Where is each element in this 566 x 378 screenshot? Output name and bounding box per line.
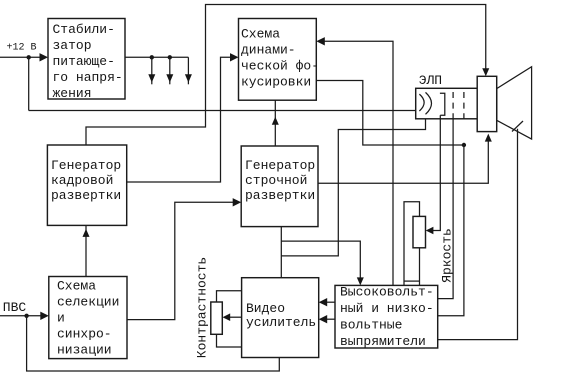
node dot focus electrode junction — [462, 143, 466, 147]
CRT dashed focus electrode — [463, 92, 465, 119]
block video amplifier (Видео усилитель) — [242, 278, 319, 358]
svg-text:усилитель: усилитель — [246, 315, 316, 330]
wire rectifier HV output to anode — [438, 129, 518, 340]
supply drop arrow 3 — [185, 57, 192, 84]
wire trunk branch to CRT cathode — [281, 114, 425, 256]
node junction on +12V line — [27, 55, 31, 59]
svg-text:выпрямители: выпрямители — [340, 334, 426, 349]
svg-text:Схема: Схема — [57, 279, 96, 294]
svg-text:развертки: развертки — [51, 188, 121, 203]
arrowhead into yoke top — [482, 68, 489, 76]
arrowhead into focus block left — [230, 53, 239, 61]
CRT neck envelope — [416, 88, 497, 119]
CRT cathode outer arc — [426, 92, 432, 114]
block stabilizer (Стабилизатор питающего напряжения) — [48, 19, 125, 102]
brightness pot bottom terminal to rectifier — [419, 248, 421, 286]
wire line generator to yoke bottom — [318, 142, 488, 184]
deflection yoke — [477, 76, 497, 131]
brightness pot body — [413, 216, 426, 247]
contrast pot bottom terminal to video amp — [217, 334, 242, 347]
svg-text:ческой фо-: ческой фо- — [241, 59, 319, 74]
svg-text:Схема: Схема — [241, 27, 280, 42]
wire focus block output to CRT focus electrode — [316, 81, 464, 146]
supply drop arrow 1 — [148, 57, 155, 84]
arrowhead into line generator left — [233, 198, 242, 206]
svg-text:низации: низации — [57, 343, 112, 358]
svg-text:строчной: строчной — [245, 173, 307, 188]
node dot 1 on distribution line — [150, 55, 154, 59]
wire G2 electrode to rectifier output 1 — [438, 119, 453, 299]
wire stabilizer output distribution — [125, 56, 188, 58]
svg-text:Стабили-: Стабили- — [53, 22, 115, 37]
svg-text:селекции: селекции — [57, 295, 119, 310]
CRT funnel and screen — [497, 67, 532, 139]
arrowhead wiper into contrast pot — [223, 313, 231, 321]
contrast pot wiper stub from video amp — [230, 316, 242, 318]
supply drop arrow 2 — [166, 57, 173, 84]
wire line generator top to focus block bottom — [274, 100, 276, 146]
svg-text:вольтные: вольтные — [340, 318, 402, 333]
svg-text:Яркость: Яркость — [440, 228, 455, 283]
block frame scan generator (Генератор кадровой развертки) — [47, 145, 126, 225]
CRT dashed electrode G2 — [452, 92, 454, 119]
wire sync selector to line generator — [127, 202, 233, 319]
wire sync selector up to frame generator — [85, 225, 87, 276]
arrowhead into stabilizer left — [40, 53, 49, 61]
wire rectifier to video amp supply 2 — [327, 318, 335, 320]
svg-text:ЭЛП: ЭЛП — [419, 73, 442, 88]
wire rectifier to focus block right (with arrow) — [324, 41, 393, 285]
brightness pot loop bottom tie — [404, 280, 420, 282]
contrast pot top terminal to video amp — [217, 291, 242, 302]
svg-text:ПВС: ПВС — [3, 300, 27, 315]
svg-text:жения: жения — [53, 86, 92, 101]
svg-text:кадровой: кадровой — [51, 173, 113, 188]
wire PVS input — [0, 315, 41, 317]
svg-text:+12 В: +12 В — [7, 43, 37, 54]
wire rectifier to video amp supply 1 — [327, 301, 335, 303]
block HV and LV rectifiers (Высоковольтный и низковольтные выпрямители) — [335, 285, 438, 350]
svg-text:синхро-: синхро- — [57, 327, 112, 342]
svg-text:кусировки: кусировки — [241, 75, 311, 90]
contrast pot body — [211, 302, 223, 334]
arrowhead up into frame generator bottom — [83, 229, 90, 237]
wire trunk branch to rectifier top — [281, 241, 360, 278]
wire PVS to video amplifier bottom — [27, 316, 280, 371]
wire from +12V node down to heater line — [28, 57, 30, 110]
node dot 2 on distribution line — [168, 55, 172, 59]
node junction on PVS line — [24, 314, 28, 318]
arrowhead up into yoke bottom — [485, 134, 492, 142]
arrowhead wiper into brightness pot — [426, 227, 434, 235]
svg-text:Видео: Видео — [246, 301, 285, 316]
svg-text:ный и низко-: ный и низко- — [340, 301, 434, 316]
block line scan generator (Генератор строчной развертки) — [241, 146, 318, 227]
wire frame generator top to deflection yoke (top run) — [86, 5, 486, 146]
svg-text:го напря-: го напря- — [53, 70, 123, 85]
wire focus electrode down to rectifier output 2 — [438, 145, 464, 316]
wire line generator bottom trunk to video amp top — [280, 227, 282, 278]
svg-text:Генератор: Генератор — [245, 158, 315, 173]
brightness pot top terminal loop — [404, 202, 420, 286]
svg-text:питающе-: питающе- — [53, 54, 115, 69]
arrowhead into video amp right 1 — [319, 298, 328, 306]
svg-text:динами-: динами- — [241, 43, 296, 58]
svg-text:Генератор: Генератор — [51, 158, 121, 173]
svg-text:и: и — [57, 311, 65, 326]
wire heater/cathode supply line across to CRT — [29, 110, 421, 112]
arrowhead up on line-to-focus wire — [272, 117, 279, 125]
CRT anode tick — [512, 121, 523, 132]
arrowhead into sync selector left — [40, 312, 49, 320]
svg-text:Контрастность: Контрастность — [195, 257, 210, 358]
svg-text:Высоковольт-: Высоковольт- — [340, 285, 434, 300]
svg-text:затор: затор — [53, 38, 92, 53]
block sync selector (Схема селекции и синхронизации) — [49, 277, 127, 359]
arrowhead into focus block right — [316, 37, 325, 45]
wire frame generator right to focus block left — [127, 57, 231, 182]
CRT grid electrode bracket — [440, 93, 445, 115]
arrowhead into video amp right 2 — [319, 315, 328, 323]
svg-text:развертки: развертки — [245, 188, 315, 203]
block dynamic focusing (Схема динамической фокусировки) — [239, 19, 320, 101]
arrowhead down into rectifier top — [357, 277, 364, 285]
wire +12V input to stabilizer — [0, 56, 41, 58]
wire grid electrode down to brightness wiper — [433, 115, 440, 230]
CRT cathode inner arc — [419, 94, 424, 111]
